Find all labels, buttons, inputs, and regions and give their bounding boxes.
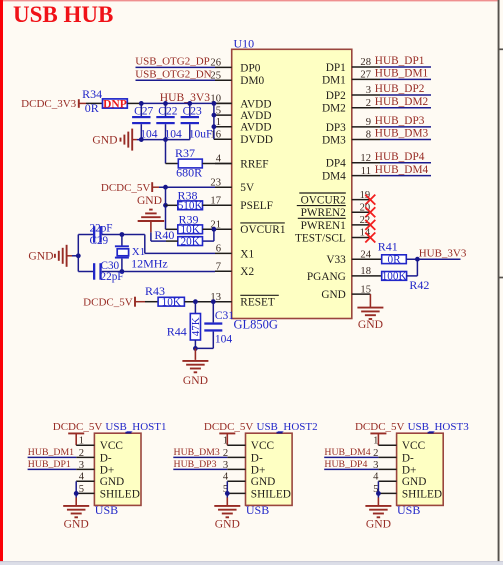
svg-text:R39: R39 [179,213,199,227]
svg-text:C29: C29 [90,235,109,247]
svg-text:24: 24 [360,249,371,260]
svg-text:GND: GND [321,289,345,301]
svg-text:104: 104 [215,334,233,346]
svg-text:D+: D+ [402,464,417,476]
svg-text:HUB_DM4: HUB_DM4 [375,164,429,176]
svg-text:DM1: DM1 [322,74,346,86]
svg-text:D+: D+ [100,464,115,476]
svg-text:8: 8 [366,130,371,141]
svg-text:R44: R44 [167,324,187,338]
svg-text:VCC: VCC [402,440,425,452]
svg-text:11: 11 [361,166,371,177]
svg-text:HUB_DM3: HUB_DM3 [375,128,429,140]
svg-text:DP3: DP3 [326,122,346,134]
svg-text:5V: 5V [240,182,255,194]
svg-text:12MHz: 12MHz [131,256,168,270]
svg-text:10K: 10K [162,297,181,309]
svg-text:R34: R34 [82,87,102,101]
svg-text:USB HUB: USB HUB [13,2,113,27]
svg-text:47K: 47K [190,317,202,336]
svg-text:15: 15 [360,284,371,295]
svg-text:D-: D- [251,452,263,464]
svg-text:GL850G: GL850G [234,318,278,332]
svg-text:GND: GND [100,476,124,488]
svg-text:R42: R42 [409,278,429,292]
svg-text:D-: D- [402,452,414,464]
svg-text:GND: GND [137,194,162,207]
svg-text:DM2: DM2 [322,103,346,115]
svg-text:HUB_DP1: HUB_DP1 [375,55,425,67]
svg-text:100K: 100K [382,271,407,283]
svg-text:PSELF: PSELF [240,200,273,212]
svg-text:20K: 20K [181,236,200,248]
svg-text:X1: X1 [240,248,254,260]
svg-text:DCDC_5V: DCDC_5V [53,421,103,433]
svg-text:HUB_DP1: HUB_DP1 [28,459,71,470]
svg-text:SHILED: SHILED [402,488,442,500]
svg-text:DCDC_3V3: DCDC_3V3 [21,98,77,110]
svg-text:1: 1 [373,436,378,447]
svg-text:GND: GND [358,318,383,331]
svg-text:HUB_DP3: HUB_DP3 [174,459,217,470]
svg-text:AVDD: AVDD [240,98,271,110]
svg-text:TEST/SCL: TEST/SCL [295,232,346,244]
svg-text:R38: R38 [178,189,198,203]
svg-text:4: 4 [223,472,229,483]
svg-text:HUB_DM3: HUB_DM3 [174,447,220,458]
svg-text:HUB_3V3: HUB_3V3 [419,247,467,259]
svg-text:GND: GND [92,134,117,147]
svg-text:USB_OTG2_DN: USB_OTG2_DN [135,68,211,80]
svg-text:HUB_DP4: HUB_DP4 [375,151,425,163]
svg-text:10uF: 10uF [189,128,213,140]
svg-text:DVDD: DVDD [240,134,273,146]
svg-text:DCDC_5V: DCDC_5V [83,296,133,308]
svg-text:R41: R41 [378,239,398,253]
svg-text:USB: USB [246,503,269,517]
svg-text:C23: C23 [183,106,202,118]
svg-text:SHILED: SHILED [251,488,291,500]
svg-text:DP0: DP0 [240,62,260,74]
svg-text:HUB_DP2: HUB_DP2 [375,83,425,95]
svg-text:DCDC_5V: DCDC_5V [101,182,151,194]
svg-text:USB_HOST2: USB_HOST2 [257,421,318,433]
svg-text:DM3: DM3 [322,134,346,146]
svg-text:22pF: 22pF [90,223,113,235]
svg-text:V33: V33 [326,254,346,266]
svg-text:3: 3 [366,85,371,96]
svg-text:C31: C31 [215,310,234,322]
svg-text:4: 4 [373,472,379,483]
svg-text:HUB_DP3: HUB_DP3 [375,115,425,127]
svg-text:1: 1 [223,436,228,447]
svg-text:0R: 0R [85,101,99,115]
svg-text:USB_OTG2_DP: USB_OTG2_DP [135,56,210,68]
svg-text:AVDD: AVDD [240,110,271,122]
svg-text:C22: C22 [158,106,177,118]
svg-text:22pF: 22pF [101,271,124,283]
svg-text:2: 2 [366,98,371,109]
svg-text:RREF: RREF [240,158,268,170]
svg-text:GND: GND [28,250,53,263]
svg-text:HUB_DP4: HUB_DP4 [324,459,367,470]
svg-text:5: 5 [79,484,84,495]
svg-text:GND: GND [215,517,240,530]
svg-text:1: 1 [79,436,84,447]
svg-text:HUB_DM2: HUB_DM2 [375,96,429,108]
svg-text:DM0: DM0 [240,75,264,87]
svg-text:VCC: VCC [100,440,123,452]
svg-text:680R: 680R [176,166,202,180]
svg-text:DCDC_5V: DCDC_5V [355,421,405,433]
svg-text:OVCUR2: OVCUR2 [301,195,347,207]
svg-text:GND: GND [251,476,275,488]
svg-text:9: 9 [366,117,371,128]
svg-text:GND: GND [402,476,426,488]
svg-text:2: 2 [79,448,84,459]
svg-text:DNP: DNP [103,98,127,110]
svg-text:HUB_DM1: HUB_DM1 [28,447,74,458]
svg-text:R43: R43 [145,284,165,298]
svg-text:HUB_DM1: HUB_DM1 [375,68,428,80]
svg-text:VCC: VCC [251,440,274,452]
svg-text:R40: R40 [154,228,174,242]
svg-text:3: 3 [79,460,84,471]
svg-text:18: 18 [360,266,371,277]
svg-text:D-: D- [100,452,112,464]
svg-text:OVCUR1: OVCUR1 [240,224,285,236]
svg-text:DM4: DM4 [322,171,346,183]
svg-text:28: 28 [360,57,371,68]
svg-text:D+: D+ [251,464,266,476]
svg-text:USB: USB [95,503,118,517]
svg-text:PWREN2: PWREN2 [301,207,347,219]
svg-text:DCDC_5V: DCDC_5V [204,421,254,433]
svg-text:USB: USB [397,503,420,517]
svg-text:USB_HOST3: USB_HOST3 [408,421,470,433]
svg-text:PGANG: PGANG [307,271,346,283]
svg-text:U10: U10 [234,36,255,50]
svg-text:GND: GND [183,374,208,387]
svg-text:USB_HOST1: USB_HOST1 [105,421,166,433]
svg-text:4: 4 [79,472,85,483]
svg-text:RESET: RESET [240,297,275,309]
svg-text:PWREN1: PWREN1 [301,220,346,232]
svg-text:C27: C27 [134,106,153,118]
svg-text:AVDD: AVDD [240,122,271,134]
svg-text:DP1: DP1 [326,62,346,74]
svg-text:GND: GND [366,517,391,530]
svg-text:0R: 0R [387,254,401,266]
svg-text:SHILED: SHILED [100,488,140,500]
svg-text:DP4: DP4 [326,158,346,170]
svg-text:GND: GND [64,517,89,530]
svg-text:12: 12 [360,153,371,164]
svg-text:27: 27 [360,70,371,81]
svg-text:DP2: DP2 [326,90,346,102]
svg-text:R37: R37 [175,146,195,160]
svg-text:HUB_DM4: HUB_DM4 [324,447,370,458]
svg-text:X2: X2 [240,266,254,278]
